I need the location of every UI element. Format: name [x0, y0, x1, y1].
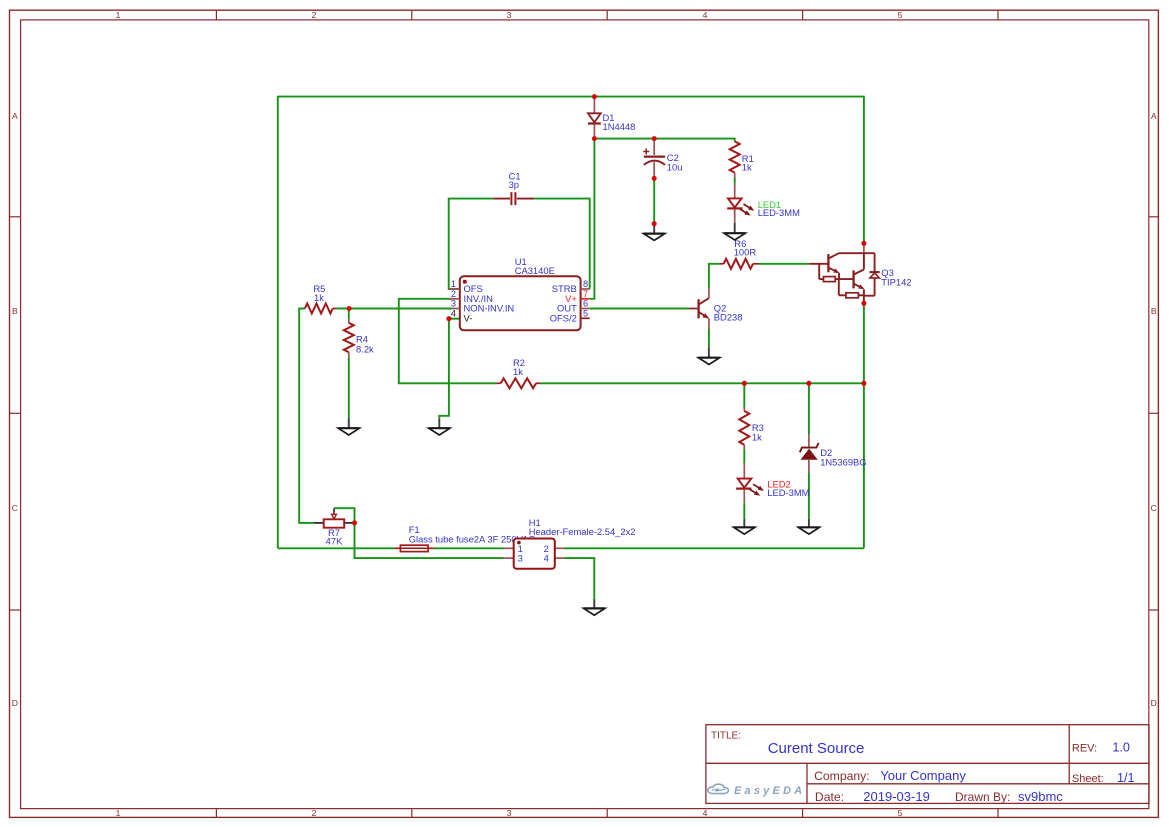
wire R3 top — [743, 383, 745, 407]
label R4 — [356, 333, 374, 354]
wire Q2 collector from R6 node — [709, 264, 720, 288]
svg-text:3: 3 — [451, 299, 456, 309]
wire R2 right to bottom node rail — [540, 382, 864, 384]
wire D1 cathode down to U1 pin7 — [590, 139, 595, 299]
label R5 — [313, 283, 325, 303]
svg-text:4: 4 — [544, 553, 549, 564]
wire U1 pin6 to Q2 base — [590, 308, 689, 310]
svg-text:1N4448: 1N4448 — [603, 121, 636, 132]
wire R3 bottom to LED2 — [743, 449, 745, 464]
resistor R1 — [730, 141, 740, 172]
svg-text:Sheet:: Sheet: — [1072, 773, 1104, 785]
svg-text:TIP142: TIP142 — [881, 277, 911, 288]
U1 pin names — [464, 283, 578, 323]
svg-text:C: C — [12, 503, 18, 513]
EasyEDA logo — [708, 784, 805, 797]
svg-text:2: 2 — [312, 10, 317, 20]
zener diode D2 — [800, 434, 819, 473]
label Q2 — [714, 303, 743, 323]
header H1 — [504, 539, 564, 569]
svg-text:1k: 1k — [314, 292, 324, 303]
label H1 — [529, 517, 636, 537]
label R2 — [513, 357, 525, 377]
wire Q2 emitter to ground — [708, 328, 710, 348]
svg-text:V-: V- — [464, 313, 473, 324]
svg-text:8: 8 — [583, 279, 588, 289]
svg-text:2: 2 — [312, 808, 317, 818]
svg-text:7: 7 — [583, 289, 588, 299]
wire R7 node down to H1 pin3 — [355, 523, 504, 558]
label LED2 — [767, 478, 809, 498]
svg-text:TITLE:: TITLE: — [711, 731, 741, 742]
svg-text:Header-Female-2.54_2x2: Header-Female-2.54_2x2 — [529, 526, 636, 537]
svg-text:Your Company: Your Company — [880, 768, 966, 783]
label F1 — [409, 524, 536, 544]
svg-text:3p: 3p — [509, 179, 519, 190]
ground Q2 — [698, 348, 719, 365]
label LED1 — [758, 199, 800, 218]
svg-text:1k: 1k — [742, 162, 752, 173]
wire R7 wiper jumper — [334, 508, 355, 523]
label U1 — [515, 256, 555, 276]
label R3 — [752, 422, 764, 443]
svg-text:D: D — [1151, 698, 1157, 708]
transistor Q2 — [689, 288, 709, 328]
svg-text:3: 3 — [518, 553, 523, 564]
svg-text:D: D — [12, 698, 18, 708]
wire left vertical rail — [277, 96, 279, 549]
svg-text:3: 3 — [507, 808, 512, 818]
LED LED1 — [727, 184, 754, 223]
svg-text:5: 5 — [583, 309, 588, 319]
wire R1 bottom to LED1 — [734, 178, 736, 184]
left ruler letters A-D — [12, 111, 18, 708]
wire R6 right to Q3 base — [759, 263, 809, 265]
svg-text:B: B — [12, 306, 18, 316]
wire D1 cathode to R1 top — [594, 138, 734, 140]
svg-text:LED-3MM: LED-3MM — [758, 207, 800, 218]
wire H1 pin2 to right rail — [564, 547, 864, 549]
title block frame — [706, 725, 1149, 804]
diode D1 — [588, 98, 601, 137]
svg-text:4: 4 — [451, 309, 456, 319]
svg-text:Drawn By:: Drawn By: — [955, 790, 1010, 804]
junction dots — [347, 94, 867, 525]
ground R4 — [338, 418, 359, 435]
ground LED1 — [724, 223, 745, 240]
svg-text:4: 4 — [703, 808, 708, 818]
label Q3 — [881, 267, 911, 287]
svg-text:C: C — [1151, 503, 1157, 513]
svg-text:1/1: 1/1 — [1117, 771, 1135, 785]
svg-text:A: A — [12, 111, 18, 121]
potentiometer R7 — [314, 508, 355, 528]
svg-text:1.0: 1.0 — [1112, 741, 1130, 755]
label C1 — [509, 170, 521, 190]
wire C1 right loop (to U1 pin8) — [534, 199, 590, 289]
svg-text:REV:: REV: — [1072, 743, 1097, 755]
U1 pin numbers — [451, 279, 588, 318]
svg-text:4: 4 — [703, 10, 708, 20]
svg-text:1: 1 — [451, 279, 456, 289]
wire R5 left down to R7 — [299, 309, 314, 523]
ground C2 — [644, 224, 665, 241]
label R1 — [742, 153, 754, 173]
wire U1 pin4 stub — [449, 318, 460, 320]
wire R5 right to U1 pin3 (node with R4) — [336, 308, 452, 310]
right ruler ticks — [1149, 217, 1159, 610]
svg-text:6: 6 — [583, 299, 588, 309]
svg-text:1N5369BG: 1N5369BG — [820, 457, 866, 468]
svg-text:1k: 1k — [752, 432, 762, 443]
svg-text:BD238: BD238 — [714, 312, 743, 323]
ground LED2 — [734, 519, 755, 534]
resistor R5 — [305, 304, 333, 314]
svg-text:1: 1 — [116, 808, 121, 818]
bottom ruler ticks — [216, 809, 998, 818]
op-amp U1 CA3140E — [449, 276, 590, 330]
wire R1 top drop — [734, 138, 736, 142]
svg-text:3: 3 — [507, 10, 512, 20]
capacitor C2 — [643, 140, 665, 177]
wire D2 bottom to ground — [808, 473, 810, 519]
wire Q3 emitter to bottom node — [863, 303, 865, 383]
label C2 — [667, 152, 683, 172]
wire H1 pin4 to ground — [564, 558, 594, 599]
svg-text:Date:: Date: — [815, 790, 844, 804]
wire bottom rail left (to F1) — [278, 547, 394, 549]
wire R4 bottom to ground — [348, 357, 350, 418]
wire U1 pin2 feedback loop to R2 — [399, 299, 496, 384]
fuse F1 — [394, 545, 433, 551]
svg-text:CA3140E: CA3140E — [515, 265, 555, 276]
wire D2 top — [808, 383, 810, 434]
svg-text:10u: 10u — [667, 162, 683, 173]
svg-text:Curent Source: Curent Source — [768, 740, 865, 757]
svg-text:A: A — [1151, 111, 1157, 121]
resistor R2 — [496, 382, 501, 384]
label D1 — [603, 112, 636, 132]
wire F1 to H1 pin1 — [434, 547, 504, 549]
wire right vertical (top rail to Q3 collector) — [863, 96, 865, 244]
wire C2 bottom to ground — [653, 178, 655, 223]
svg-text:8.2k: 8.2k — [356, 344, 374, 355]
svg-text:B: B — [1151, 306, 1157, 316]
svg-text:2: 2 — [451, 289, 456, 299]
transistor Q3 (darlington TIP142) — [809, 243, 879, 303]
wire C1 left loop (to U1 pin1) — [449, 199, 494, 289]
top ruler numbers 1-5 — [116, 10, 903, 20]
svg-text:2019-03-19: 2019-03-19 — [863, 789, 930, 804]
label R7 — [326, 527, 343, 547]
svg-text:OFS/2: OFS/2 — [550, 313, 577, 324]
ground D2 — [798, 519, 819, 534]
resistor R4 — [348, 319, 350, 323]
svg-text:1: 1 — [116, 10, 121, 20]
LED LED2 — [736, 464, 764, 503]
ground U1 pin4 — [429, 419, 450, 435]
left ruler ticks — [10, 217, 21, 610]
svg-text:100R: 100R — [734, 247, 757, 258]
right ruler letters A-D — [1151, 111, 1157, 708]
top ruler ticks — [216, 10, 998, 20]
svg-text:1k: 1k — [513, 366, 523, 377]
svg-text:5: 5 — [898, 10, 903, 20]
resistor R6 — [720, 263, 724, 265]
label R6 — [734, 238, 757, 258]
svg-text:EasyEDA: EasyEDA — [734, 785, 805, 797]
wire top supply rail — [278, 96, 864, 98]
resistor R3 — [743, 407, 745, 411]
svg-text:LED-3MM: LED-3MM — [767, 487, 809, 498]
svg-text:5: 5 — [898, 808, 903, 818]
wire bottom node down right side — [863, 383, 865, 548]
svg-text:47K: 47K — [326, 535, 343, 546]
H1 pin numbers — [518, 543, 549, 564]
svg-text:sv9bmc: sv9bmc — [1018, 789, 1063, 804]
ground H1 pin4 — [584, 599, 605, 615]
wire LED2 cathode to ground — [743, 503, 745, 519]
wire R4 top — [348, 309, 350, 319]
bottom ruler numbers 1-5 — [116, 808, 903, 818]
label D2 — [820, 447, 866, 468]
wire U1 pin4 to ground — [439, 319, 449, 419]
capacitor C1 — [493, 192, 534, 205]
svg-text:Company:: Company: — [814, 769, 870, 783]
